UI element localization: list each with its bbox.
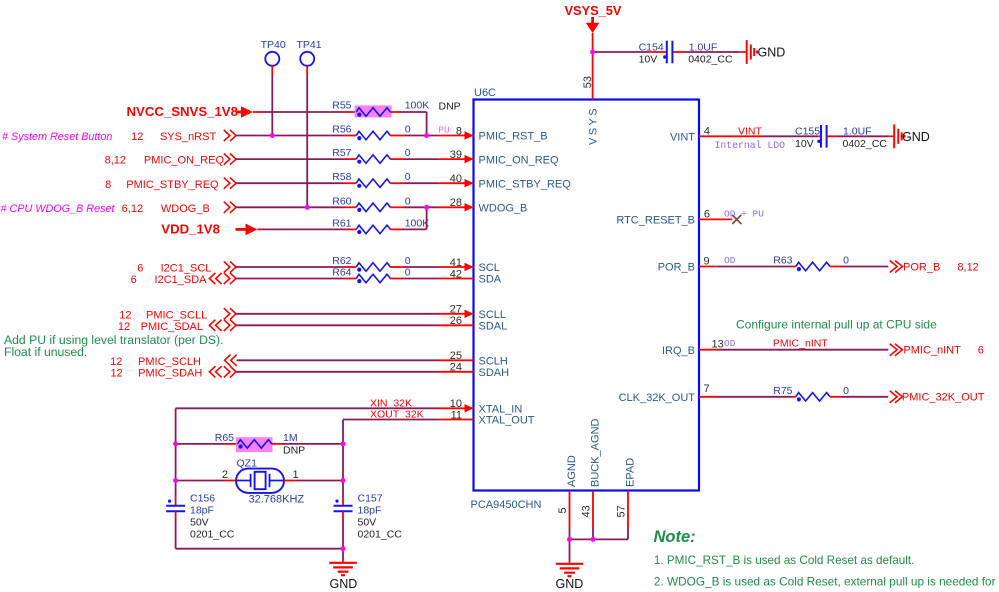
wire PMIC_STBY_REQ to R58 (236, 182, 356, 184)
svg-text:PMIC_SCLH: PMIC_SCLH (138, 356, 201, 368)
wire AGND rail (570, 539, 629, 561)
resistor R58 0 (332, 171, 410, 188)
svg-text:I2C1_SCL: I2C1_SCL (161, 263, 212, 275)
wire R60 to pin 28 (390, 206, 473, 208)
wire PMIC_SDAH to pin 24 (236, 371, 474, 373)
pin 24 SDAH (450, 362, 509, 379)
svg-text:6: 6 (704, 208, 710, 220)
svg-text:50V: 50V (358, 517, 377, 529)
svg-text:41: 41 (450, 257, 462, 269)
pin 9 POR_B wire to R63 (699, 266, 796, 268)
svg-text:12: 12 (118, 321, 130, 333)
svg-text:11: 11 (451, 409, 462, 421)
wire XIN_32K net (176, 408, 474, 505)
resistor R56 0 (332, 124, 410, 141)
label XOUT_32K (370, 409, 424, 421)
port PMIC_ON_REQ (105, 154, 236, 167)
pin 13 IRQ_B labels (662, 338, 736, 357)
svg-text:26: 26 (450, 315, 462, 327)
junction crystal GND (341, 546, 346, 551)
svg-text:40: 40 (450, 173, 462, 185)
junction VSYS node (590, 50, 595, 55)
pin 5 AGND (557, 455, 578, 539)
wire XIN to R65 (176, 443, 238, 445)
svg-text:R60: R60 (332, 195, 351, 207)
pin 39 PMIC_ON_REQ (450, 149, 559, 166)
capacitor C154 (639, 41, 733, 66)
pin 40 PMIC_STBY_REQ (450, 173, 571, 190)
port I2C1_SCL (137, 261, 236, 274)
svg-text:PMIC_ON_REQ: PMIC_ON_REQ (479, 154, 560, 166)
wire C154 to GND (673, 51, 741, 53)
IC U6C PCA9450CHN PMIC (471, 87, 700, 511)
svg-text:PMIC_32K_OUT: PMIC_32K_OUT (902, 392, 985, 404)
note Configure internal pull up (736, 317, 937, 331)
port PMIC_nINT (890, 344, 984, 357)
junction WDOG_B at TP41 (305, 205, 310, 210)
pin 26 SDAL (450, 315, 508, 332)
svg-text:Internal LDO: Internal LDO (715, 140, 786, 151)
note 1 (654, 554, 915, 567)
svg-text:SDAH: SDAH (479, 367, 510, 379)
port POR_B (890, 261, 979, 274)
wire XIN to QZ1 (176, 480, 236, 482)
wire TP41 to WDOG_B net (306, 66, 308, 208)
pin 4 VINT labels (670, 125, 785, 151)
svg-text:SCLH: SCLH (479, 356, 508, 368)
wire C155 to GND (827, 135, 889, 137)
pin 27 SCLL (450, 304, 506, 321)
wire crystal GND rail (176, 549, 343, 560)
junction R55 to SYS_nRST (424, 133, 429, 138)
crystal QZ1 32.768KHZ (222, 458, 305, 506)
pin 13 IRQ_B wire (699, 349, 888, 351)
svg-text:DNP: DNP (283, 445, 305, 457)
junction R65 right (341, 441, 346, 446)
svg-text:R65: R65 (215, 432, 234, 444)
svg-text:R64: R64 (332, 267, 351, 279)
svg-text:7: 7 (703, 383, 709, 395)
svg-text:18pF: 18pF (358, 505, 382, 517)
svg-text:EPAD: EPAD (624, 458, 636, 487)
svg-text:PMIC_STBY_REQ: PMIC_STBY_REQ (126, 179, 219, 191)
svg-text:42: 42 (450, 268, 462, 280)
svg-text:12: 12 (119, 309, 131, 321)
wire PMIC_SDAL to pin 26 (236, 324, 474, 326)
svg-text:SCLL: SCLL (479, 309, 507, 321)
capacitor C157 18pF (334, 493, 403, 541)
svg-text:100K: 100K (405, 217, 430, 229)
wire R75 to PMIC_32K_OUT port (830, 396, 888, 398)
svg-text:9: 9 (703, 256, 709, 268)
svg-text:C156: C156 (190, 493, 215, 505)
svg-text:GND: GND (556, 577, 584, 591)
no-connect X at RTC_RESET_B (732, 215, 741, 224)
svg-text:39: 39 (450, 149, 462, 161)
svg-text:0: 0 (405, 255, 411, 267)
svg-text:PMIC_ON_REQ: PMIC_ON_REQ (144, 155, 225, 167)
svg-text:POR_B: POR_B (658, 262, 695, 274)
capacitor C156 18pF (166, 493, 235, 541)
svg-text:6: 6 (978, 345, 984, 357)
pin 25 SCLH (450, 350, 508, 367)
power symbol VDD_1V8 (161, 222, 257, 237)
svg-text:8: 8 (105, 179, 111, 191)
svg-text:VSYS: VSYS (588, 106, 600, 145)
svg-text:0: 0 (405, 124, 411, 136)
wire R55 to SYS_nRST node (390, 112, 426, 136)
power symbol NVCC_SNVS_1V8 (127, 104, 254, 119)
wire R62 to pin 41 (390, 266, 473, 268)
svg-text:43: 43 (581, 505, 593, 517)
svg-text:XTAL_IN: XTAL_IN (479, 404, 523, 416)
svg-text:0: 0 (843, 385, 849, 397)
junction R65 left (173, 441, 178, 446)
svg-text:R61: R61 (332, 217, 351, 229)
wire R65 to XOUT (272, 443, 344, 445)
label XIN_32K (370, 397, 412, 409)
svg-text:R75: R75 (773, 385, 792, 397)
ground GND at crystal (329, 560, 357, 591)
svg-text:1: 1 (293, 469, 299, 481)
pin 7 CLK_32K_OUT wire to R75 (699, 396, 796, 398)
svg-text:R62: R62 (332, 255, 351, 267)
wire C157 to GND rail (342, 511, 344, 548)
svg-text:WDOG_B: WDOG_B (161, 203, 210, 215)
svg-text:RTC_RESET_B: RTC_RESET_B (616, 215, 695, 227)
svg-text:Note:: Note: (654, 528, 696, 546)
svg-text:8,12: 8,12 (957, 261, 978, 273)
resistor R60 0 (332, 195, 410, 212)
resistor R63 0 (773, 255, 849, 272)
svg-text:BUCK_AGND: BUCK_AGND (589, 418, 601, 487)
port PMIC_STBY_REQ (105, 178, 236, 191)
svg-text:C154: C154 (639, 41, 664, 53)
svg-text:PMIC_SDAH: PMIC_SDAH (138, 367, 202, 379)
svg-text:PU: PU (438, 124, 450, 135)
svg-text:PMIC_RST_B: PMIC_RST_B (479, 131, 548, 143)
svg-text:25: 25 (450, 350, 462, 362)
pin 43 BUCK_AGND (581, 418, 602, 539)
svg-text:4: 4 (704, 125, 710, 137)
svg-text:XIN_32K: XIN_32K (370, 397, 412, 409)
pin 42 SDA (450, 268, 502, 285)
svg-text:2. WDOG_B is used as Cold Rese: 2. WDOG_B is used as Cold Reset, externa… (654, 575, 996, 589)
svg-text:NVCC_SNVS_1V8: NVCC_SNVS_1V8 (127, 104, 238, 119)
svg-text:1. PMIC_RST_B is used as Cold: 1. PMIC_RST_B is used as Cold Reset as d… (654, 554, 915, 567)
pin 7 CLK_32K_OUT labels (619, 383, 710, 404)
svg-text:0402_CC: 0402_CC (843, 138, 888, 150)
label PU at pin 8 (438, 124, 450, 135)
svg-text:Configure internal pull up at: Configure internal pull up at CPU side (736, 317, 937, 331)
svg-text:DNP: DNP (439, 101, 461, 113)
wire R61 to WDOG_B node (390, 207, 426, 229)
wire R63 to POR_B port (830, 266, 888, 268)
comment System Reset Button (2, 131, 112, 143)
comment CPU WDOG_B Reset (1, 203, 116, 215)
pin 41 SCL (450, 257, 500, 274)
junction SYS_nRST at TP40 (270, 133, 275, 138)
ground GND at AGND (556, 561, 584, 591)
wire XOUT_32K net (343, 420, 474, 506)
wire TP40 to SYS_nRST net (271, 66, 273, 136)
svg-text:VSYS_5V: VSYS_5V (565, 3, 622, 18)
svg-text:24: 24 (450, 362, 462, 374)
svg-text:R63: R63 (773, 255, 792, 267)
svg-text:2: 2 (222, 469, 228, 481)
svg-text:U6C: U6C (474, 87, 496, 99)
resistor R55 100K DNP (332, 100, 460, 118)
pin 8 PMIC_RST_B (456, 125, 548, 142)
svg-text:PMIC_SCLL: PMIC_SCLL (146, 309, 207, 321)
pin 6 RTC_RESET_B wire (699, 218, 732, 220)
resistor R64 0 (332, 267, 410, 284)
svg-text:GND: GND (902, 130, 930, 144)
svg-text:6: 6 (131, 274, 137, 286)
testpoint TP40 (261, 39, 286, 66)
svg-text:0: 0 (843, 255, 849, 267)
pin 6 RTC_RESET_B labels (616, 208, 764, 226)
svg-text:PCA9450CHN: PCA9450CHN (471, 499, 542, 511)
pin 10 XTAL_IN (450, 398, 523, 415)
wire I2C1_SDA to R64 (236, 278, 356, 280)
svg-text:PMIC_nINT: PMIC_nINT (773, 338, 828, 350)
svg-text:GND: GND (758, 46, 786, 60)
svg-text:R55: R55 (332, 100, 351, 112)
port PMIC_32K_OUT (890, 391, 985, 404)
wire R56 to pin 8 (390, 135, 473, 137)
port PMIC_SDAH (110, 366, 236, 379)
wire R64 to pin 42 (390, 278, 473, 280)
svg-text:13: 13 (712, 339, 724, 351)
wire I2C1_SCL to R62 (236, 266, 356, 268)
svg-text:SYS_nRST: SYS_nRST (160, 131, 217, 143)
svg-text:POR_B: POR_B (903, 261, 940, 273)
resistor R62 0 (332, 255, 410, 272)
port WDOG_B (122, 202, 236, 215)
wire VSYS_5V to pin 53 (592, 33, 594, 100)
pin 53 VSYS (582, 76, 599, 145)
wire C156 to GND rail (175, 511, 177, 548)
svg-text:0: 0 (405, 147, 411, 159)
port PMIC_SCLH (110, 355, 237, 368)
svg-text:SCL: SCL (479, 262, 500, 274)
pin 11 XTAL_OUT (451, 409, 535, 426)
svg-text:QZ1: QZ1 (237, 458, 258, 470)
resistor R61 100K (332, 217, 429, 234)
svg-text:32.768KHZ: 32.768KHZ (249, 494, 305, 506)
svg-text:6,12: 6,12 (122, 203, 143, 215)
resistor R57 0 (332, 147, 410, 164)
svg-text:10V: 10V (639, 54, 658, 66)
svg-text:6: 6 (137, 263, 143, 275)
capacitor C155 (795, 125, 887, 150)
note Add PU if using level translator (4, 333, 223, 347)
junction QZ1 right (341, 478, 346, 483)
resistor R65 1M DNP (215, 432, 305, 457)
testpoint TP41 (297, 39, 322, 66)
svg-text:Float if unused.: Float if unused. (4, 345, 87, 359)
svg-text:53: 53 (582, 76, 594, 88)
ground GND at C155 (888, 124, 929, 148)
svg-text:C155: C155 (795, 126, 820, 138)
svg-text:0201_CC: 0201_CC (358, 528, 403, 540)
pin 28 WDOG_B (450, 197, 528, 214)
wire VDD_1V8 to R61 (258, 228, 357, 230)
wire WDOG_B to R60 (236, 206, 356, 208)
svg-text:8,12: 8,12 (105, 155, 126, 167)
svg-text:XTAL_OUT: XTAL_OUT (479, 415, 535, 427)
svg-text:57: 57 (616, 505, 628, 517)
svg-text:OD: OD (724, 255, 736, 266)
wire R58 to pin 40 (390, 182, 473, 184)
svg-text:# System Reset Button: # System Reset Button (2, 131, 112, 143)
svg-text:12: 12 (110, 356, 122, 368)
junction QZ1 left (173, 478, 178, 483)
wire R57 to pin 39 (390, 158, 473, 160)
svg-text:IRQ_B: IRQ_B (662, 345, 695, 357)
svg-text:8: 8 (456, 125, 462, 137)
wire PMIC_ON_REQ to R57 (236, 158, 356, 160)
svg-text:0: 0 (405, 267, 411, 279)
svg-text:OD + PU: OD + PU (724, 208, 764, 219)
power symbol VSYS_5V (565, 3, 622, 33)
svg-text:100K: 100K (405, 100, 430, 112)
svg-text:50V: 50V (190, 517, 209, 529)
junction BUCK_AGND (591, 537, 596, 542)
svg-text:27: 27 (450, 304, 462, 316)
port I2C1_SDA (131, 273, 236, 286)
svg-text:R57: R57 (332, 147, 351, 159)
svg-text:PMIC_nINT: PMIC_nINT (903, 345, 961, 357)
svg-text:R56: R56 (332, 124, 351, 136)
svg-text:10V: 10V (795, 138, 814, 150)
svg-text:0402_CC: 0402_CC (688, 54, 733, 66)
svg-text:# CPU WDOG_B Reset: # CPU WDOG_B Reset (1, 203, 116, 215)
wire PMIC_SCLL to pin 27 (236, 313, 474, 315)
ground GND at C154 (741, 40, 785, 64)
wire QZ1 to XOUT (284, 480, 343, 482)
svg-text:18pF: 18pF (190, 505, 214, 517)
port PMIC_SCLL (119, 308, 236, 321)
svg-text:SDA: SDA (479, 274, 502, 286)
junction AGND (567, 537, 572, 542)
wire PMIC_SCLH to pin 25 (237, 359, 474, 361)
svg-text:R58: R58 (332, 171, 351, 183)
pin 4 VINT wire (699, 135, 821, 137)
net label PMIC_nINT (773, 338, 828, 350)
pin 57 EPAD (616, 458, 637, 540)
svg-text:C157: C157 (358, 493, 383, 505)
svg-text:VINT: VINT (670, 132, 695, 144)
note 2 (654, 575, 996, 589)
wire NVCC_SNVS_1V8 to R55 (253, 111, 356, 113)
svg-text:TP41: TP41 (297, 39, 322, 51)
svg-text:XOUT_32K: XOUT_32K (370, 409, 424, 421)
svg-text:10: 10 (450, 398, 462, 410)
svg-text:I2C1_SDA: I2C1_SDA (155, 274, 208, 286)
svg-text:TP40: TP40 (261, 39, 286, 51)
svg-text:AGND: AGND (566, 455, 578, 487)
resistor R75 0 (773, 385, 849, 402)
port SYS_nRST (131, 130, 236, 143)
svg-text:CLK_32K_OUT: CLK_32K_OUT (619, 392, 696, 404)
svg-text:PMIC_SDAL: PMIC_SDAL (141, 321, 203, 333)
svg-text:0: 0 (405, 195, 411, 207)
svg-text:OD: OD (724, 338, 736, 349)
junction R61 to WDOG_B (424, 205, 429, 210)
svg-text:1M: 1M (283, 432, 298, 444)
note Float if unused (4, 345, 87, 359)
svg-text:12: 12 (110, 367, 122, 379)
wire VSYS node to C154 (595, 51, 666, 53)
svg-text:WDOG_B: WDOG_B (479, 203, 528, 215)
note heading (654, 528, 696, 546)
svg-text:0201_CC: 0201_CC (190, 528, 235, 540)
port PMIC_SDAL (118, 320, 236, 333)
svg-text:28: 28 (450, 197, 462, 209)
svg-text:12: 12 (131, 131, 143, 143)
svg-text:PMIC_STBY_REQ: PMIC_STBY_REQ (479, 178, 572, 190)
svg-text:0: 0 (405, 171, 411, 183)
svg-text:SDAL: SDAL (479, 321, 508, 333)
svg-text:VDD_1V8: VDD_1V8 (161, 222, 220, 237)
svg-text:GND: GND (330, 577, 358, 591)
svg-text:5: 5 (557, 507, 569, 513)
pin 9 POR_B labels (658, 255, 736, 274)
wire SYS_nRST to R56 (236, 135, 356, 137)
svg-text:VINT: VINT (738, 125, 763, 137)
